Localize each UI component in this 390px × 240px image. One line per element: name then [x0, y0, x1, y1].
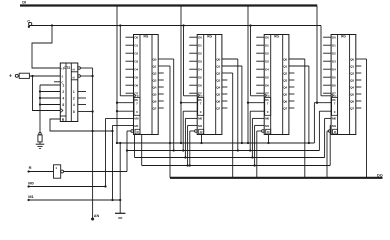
U3 input D5: [189, 76, 197, 78]
svg-text:Q6: Q6: [350, 100, 354, 104]
counter carry output cell >=9: [71, 71, 78, 73]
svg-text:Q2: Q2: [283, 72, 287, 76]
svg-text:Q3: Q3: [153, 79, 157, 83]
svg-text:D4: D4: [265, 68, 269, 72]
U2 Q5 stub wire: [158, 93, 164, 95]
register U4 RG body: [264, 35, 289, 135]
svg-text:Q4: Q4: [153, 86, 157, 90]
U5 Q1 stub wire: [356, 65, 362, 67]
U3 Q4 stub wire: [222, 86, 228, 88]
wire U3 M0 down to mesh: [184, 118, 186, 157]
wire U2 R down to R line: [126, 131, 128, 172]
riser S6 to U5 M1: [329, 125, 331, 165]
riser S5 to U5 M0: [324, 118, 326, 157]
svg-text:RG: RG: [144, 35, 149, 39]
U4 Q2 stub wire: [289, 72, 295, 74]
wire U4 M1 down to mesh: [254, 125, 256, 165]
svg-text:M1: M1: [332, 124, 336, 128]
U4 Q5 stub wire: [289, 93, 295, 95]
U3 input D0: [189, 36, 197, 38]
svg-text:0: 0: [136, 110, 138, 114]
svg-text:RG: RG: [341, 35, 346, 39]
svg-text:D3: D3: [134, 60, 138, 64]
svg-text:D0: D0: [134, 36, 138, 40]
U2 Q6 stub wire: [158, 100, 164, 102]
U3 mode input M1: [188, 124, 198, 126]
wire C line to U4 clock: [250, 26, 252, 96]
wire DI bus vertical for U2: [116, 6, 118, 144]
U4 Q7 stub wire: [289, 107, 295, 109]
riser S4 to U5 serial 0: [318, 111, 320, 150]
U4 input D3: [256, 60, 264, 62]
counter clock input chevron: [61, 109, 63, 113]
wire mesh M1 net S6: [142, 165, 331, 167]
U2 Q4 stub wire: [158, 86, 164, 88]
svg-text:D1: D1: [332, 44, 336, 48]
inverter U6: [54, 165, 61, 178]
wire DI bus vertical for U4: [247, 6, 249, 144]
svg-text:Q6: Q6: [283, 100, 287, 104]
svg-text:D4: D4: [134, 68, 138, 72]
svg-text:D5: D5: [198, 76, 202, 80]
ground: [36, 143, 44, 145]
svg-text:Q5: Q5: [153, 93, 157, 97]
svg-text:Q7: Q7: [350, 107, 354, 111]
svg-text:4: 4: [62, 97, 64, 101]
svg-text:D6: D6: [332, 84, 336, 88]
svg-text:Q1: Q1: [216, 65, 220, 69]
svg-text:Q7: Q7: [216, 107, 220, 111]
U4 Q3 stub wire: [289, 79, 295, 81]
wire + to counter clock: [33, 76, 61, 111]
U2 serial group box DS: [134, 98, 140, 116]
svg-text:RG: RG: [207, 35, 212, 39]
wire DI bus vertical for U3: [180, 6, 182, 144]
U3 serial group box DS: [198, 98, 204, 116]
junction on C line: [119, 24, 121, 26]
wire U3 M1 down to mesh: [187, 125, 189, 165]
svg-text:Q6: Q6: [153, 100, 157, 104]
U2 input D4: [126, 68, 134, 70]
svg-text:D1: D1: [134, 44, 138, 48]
U3 input D4: [189, 68, 197, 70]
svg-text:M0: M0: [332, 117, 336, 121]
wire U4 R down to DO level: [256, 131, 258, 178]
svg-text:Q2: Q2: [350, 72, 354, 76]
svg-text:8: 8: [62, 103, 64, 107]
svg-text:AN: AN: [94, 214, 100, 218]
U5 input D6: [323, 84, 331, 86]
junction on C line at counter branch: [51, 24, 53, 26]
svg-text:M0: M0: [198, 117, 202, 121]
wire U3 Q2 down to DO bus: [232, 73, 234, 178]
wire U2 M0 riser to M0 line: [105, 118, 107, 186]
U3 reset input R: [199, 129, 204, 134]
register U5 RG body: [331, 35, 356, 135]
node AN terminal: [91, 218, 94, 221]
U2 mode input M1: [113, 124, 134, 126]
svg-text:Q3: Q3: [350, 79, 354, 83]
U2 serial input 7: [117, 102, 134, 104]
U2 input D6: [126, 84, 134, 86]
U4 Q0 stub wire: [289, 58, 305, 60]
wire U3 R down to mesh: [189, 131, 191, 166]
U5 Q0 stub wire: [356, 58, 367, 60]
svg-text:D2: D2: [265, 52, 269, 56]
U2 serial input 0: [117, 110, 134, 112]
bus DO: [170, 177, 383, 179]
svg-text:CT2: CT2: [64, 66, 71, 70]
svg-text:M1: M1: [198, 124, 202, 128]
U5 input D1: [323, 44, 331, 46]
riser S3 to U5 serial 7: [313, 103, 315, 143]
svg-text:2: 2: [62, 90, 64, 94]
wire R line: [64, 171, 128, 173]
svg-text:7: 7: [267, 101, 269, 105]
svg-text:D2: D2: [332, 52, 336, 56]
svg-text:Q0: Q0: [216, 58, 220, 62]
U4 input D1: [256, 44, 264, 46]
wire mesh M0 net S5: [135, 157, 325, 159]
bus DI: [20, 4, 317, 6]
svg-text:DI: DI: [22, 0, 26, 5]
counter borrow output cell <0: [71, 79, 78, 81]
counter U1 CT2 body: [60, 63, 78, 122]
U2 input D2: [126, 52, 134, 54]
U5 Q2 stub wire: [356, 72, 362, 74]
counter R cell: [60, 115, 66, 117]
counter preset input 2: [40, 91, 60, 93]
counter reset R wire: [50, 119, 113, 131]
svg-text:1: 1: [73, 90, 75, 94]
svg-text:Q3: Q3: [283, 79, 287, 83]
wire U3 Q0 down to mesh: [237, 59, 239, 151]
U3 input D6: [189, 84, 197, 86]
svg-text:4: 4: [73, 103, 75, 107]
wire counter output 8 to node AN: [78, 111, 93, 113]
svg-text:M1: M1: [265, 124, 269, 128]
junction + node: [31, 75, 33, 77]
svg-text:Q3: Q3: [216, 79, 220, 83]
svg-text:Q4: Q4: [283, 86, 287, 90]
U4 clock input C: [251, 95, 265, 97]
wire U2 Q1 down to DO bus start: [169, 66, 171, 178]
wire U3 Q1 down to mesh: [241, 66, 243, 143]
svg-text:+1: +1: [61, 67, 65, 71]
wire preset common vertical: [39, 85, 41, 132]
svg-text:7: 7: [200, 101, 202, 105]
svg-text:1: 1: [62, 84, 64, 88]
counter preset input 1: [40, 84, 60, 86]
wire C line to U5 clock: [320, 26, 322, 96]
svg-text:R: R: [29, 165, 32, 170]
U5 mode input M0: [325, 117, 332, 119]
svg-text:D2: D2: [198, 52, 202, 56]
svg-text:D3: D3: [198, 60, 202, 64]
U4 input D4: [256, 68, 264, 70]
U5 input D7: [323, 92, 331, 94]
U3 serial input 7: [181, 102, 197, 104]
svg-text:D4: D4: [332, 68, 336, 72]
svg-text:D6: D6: [265, 84, 269, 88]
wire vertical AN net: [92, 68, 94, 219]
svg-text:Q5: Q5: [350, 93, 354, 97]
U2 input D5: [126, 76, 134, 78]
U3 mode input M0: [185, 117, 197, 119]
svg-text:D4: D4: [198, 68, 202, 72]
ground symbol: [115, 212, 125, 214]
U5 clock input C: [321, 95, 331, 97]
svg-text:+: +: [9, 74, 12, 80]
U4 input D0: [256, 36, 264, 38]
U4 serial group box DS: [265, 98, 271, 116]
svg-text:RG: RG: [274, 35, 279, 39]
U2 Q2 stub wire: [158, 72, 164, 74]
U2 Q0 stub wire: [158, 58, 174, 60]
wire U3 serial 0 down to mesh: [182, 111, 184, 150]
U5 serial group box DS: [332, 98, 338, 116]
U2 input D3: [126, 60, 134, 62]
register U3 RG body: [197, 35, 222, 135]
svg-text:Q5: Q5: [216, 93, 220, 97]
U4 reset input R: [266, 129, 271, 134]
svg-text:Q0: Q0: [350, 58, 354, 62]
svg-text:Q6: Q6: [216, 100, 220, 104]
wire U4 M0 down to mesh: [251, 118, 253, 157]
wire U4 bottom stub: [268, 135, 270, 144]
U3 Q1 stub wire: [222, 65, 242, 67]
U5 Q3 stub wire: [356, 79, 362, 81]
U3 Q6 stub wire: [222, 100, 228, 102]
wire U5 Q0 to DO bus: [366, 59, 368, 178]
junction on C line: [182, 24, 184, 26]
U2 input D0: [126, 36, 134, 38]
wire U5 R down to DO level: [326, 131, 328, 178]
U4 input D6: [256, 84, 264, 86]
U3 Q3 stub wire: [222, 79, 228, 81]
U4 Q4 stub wire: [289, 86, 295, 88]
svg-text:Q0: Q0: [283, 58, 287, 62]
wire mesh serial-7 net S3: [117, 142, 314, 144]
svg-text:M0: M0: [134, 117, 138, 121]
svg-text:7: 7: [136, 101, 138, 105]
U4 input D5: [256, 76, 264, 78]
U3 Q2 stub wire: [222, 72, 233, 74]
U5 input D3: [323, 60, 331, 62]
svg-text:Q1: Q1: [153, 65, 157, 69]
svg-text:M0: M0: [265, 117, 269, 121]
counter preset input 8: [40, 104, 60, 106]
U3 Q7 stub wire: [222, 107, 228, 109]
wire C line to U3 clock: [183, 26, 185, 96]
svg-text:7: 7: [334, 101, 336, 105]
svg-text:Q1: Q1: [283, 65, 287, 69]
U5 input D4: [323, 68, 331, 70]
U2 clock input C: [120, 95, 133, 97]
svg-text:D5: D5: [265, 76, 269, 80]
wire U4 serial 0 down to mesh: [249, 111, 251, 150]
wire C to counter +1: [32, 26, 60, 69]
U5 serial input 0: [319, 110, 331, 112]
svg-text:8: 8: [73, 110, 75, 114]
wire U2 bottom stub 1: [134, 135, 136, 158]
U4 serial input 7: [248, 102, 264, 104]
U3 input D2: [189, 52, 197, 54]
wire DI bus vertical for U5: [316, 6, 318, 103]
U5 Q5 stub wire: [356, 93, 362, 95]
U2 input D1: [126, 44, 134, 46]
wire C line: [29, 25, 321, 27]
svg-text:Q1: Q1: [350, 65, 354, 69]
svg-text:D1: D1: [265, 44, 269, 48]
wire to ground: [119, 143, 121, 213]
U3 serial input 0: [183, 110, 197, 112]
svg-text:Q2: Q2: [153, 72, 157, 76]
wire U2 Q0 down to mesh: [173, 59, 175, 151]
svg-text:0: 0: [200, 110, 202, 114]
svg-text:M1: M1: [28, 194, 34, 199]
wire U2 M1 riser to M1 line: [112, 125, 114, 200]
register U2 RG body: [134, 35, 159, 135]
U4 mode input M1: [255, 124, 265, 126]
counter pin C stub: [54, 81, 60, 83]
svg-text:D6: D6: [134, 84, 138, 88]
U2 reset input R: [135, 129, 140, 134]
wire U2 bottom stub 2: [141, 135, 143, 166]
U2 mode input M0: [106, 117, 134, 119]
svg-text:Q7: Q7: [153, 107, 157, 111]
U5 mode input M1: [329, 124, 332, 126]
U5 Q7 stub wire: [356, 107, 362, 109]
svg-text:D0: D0: [332, 36, 336, 40]
U2 input D7: [126, 92, 134, 94]
resistor R1: [39, 132, 41, 134]
wire mesh serial-0 net S4: [127, 150, 319, 152]
svg-text:D1: D1: [198, 44, 202, 48]
svg-text:D0: D0: [265, 36, 269, 40]
svg-text:D5: D5: [332, 76, 336, 80]
U4 Q6 stub wire: [289, 100, 295, 102]
svg-text:Q4: Q4: [216, 86, 220, 90]
U4 input D2: [256, 52, 264, 54]
U3 input D7: [189, 92, 197, 94]
junction on C line: [249, 24, 251, 26]
U5 input D5: [323, 76, 331, 78]
svg-text:Q2: Q2: [216, 72, 220, 76]
U5 input D2: [323, 52, 331, 54]
svg-text:D3: D3: [265, 60, 269, 64]
wire C line to U2 clock: [119, 26, 121, 96]
svg-text:D6: D6: [198, 84, 202, 88]
wire U4 Q1 down to mesh: [308, 66, 310, 143]
U3 Q0 stub wire: [222, 58, 238, 60]
U5 Q6 stub wire: [356, 100, 362, 102]
svg-text:D0: D0: [198, 36, 202, 40]
U2 Q3 stub wire: [158, 79, 164, 81]
U5 serial input 7: [314, 102, 331, 104]
wire U3 bottom stub: [201, 135, 203, 144]
U4 Q1 stub wire: [289, 65, 309, 67]
svg-text:Q4: Q4: [350, 86, 354, 90]
U3 input D3: [189, 60, 197, 62]
svg-text:D5: D5: [134, 76, 138, 80]
svg-text:Q7: Q7: [283, 107, 287, 111]
svg-text:DO: DO: [377, 173, 383, 177]
svg-text:M0: M0: [28, 181, 34, 186]
U5 Q4 stub wire: [356, 86, 362, 88]
U2 Q1 stub wire: [158, 65, 170, 67]
svg-text:Q0: Q0: [153, 58, 157, 62]
U4 input D7: [256, 92, 264, 94]
U5 reset input R: [333, 129, 338, 134]
svg-text:Q5: Q5: [283, 93, 287, 97]
U3 clock input C: [184, 95, 198, 97]
U2 Q7 stub wire: [158, 107, 164, 109]
svg-text:M1: M1: [134, 124, 138, 128]
svg-text:D2: D2: [134, 52, 138, 56]
svg-text:0: 0: [267, 110, 269, 114]
U4 mode input M0: [252, 117, 264, 119]
counter preset input 4: [40, 97, 60, 99]
svg-text:0: 0: [334, 110, 336, 114]
svg-text:D3: D3: [332, 60, 336, 64]
wire U4 Q0 down to DO bus: [304, 59, 306, 178]
U5 input D0: [323, 36, 331, 38]
U3 input D1: [189, 44, 197, 46]
svg-text:2: 2: [73, 97, 75, 101]
U4 serial input 0: [250, 110, 264, 112]
U3 Q5 stub wire: [222, 93, 228, 95]
